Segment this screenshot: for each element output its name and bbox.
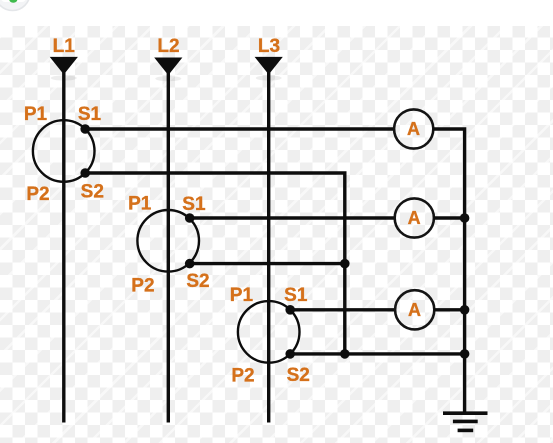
junction S2 drop / CT2 tap bbox=[340, 259, 350, 269]
wire L2 vertical bbox=[167, 71, 170, 423]
svg-text:L3: L3 bbox=[258, 36, 280, 57]
svg-text:S1: S1 bbox=[182, 194, 206, 215]
svg-text:A: A bbox=[408, 300, 421, 320]
arrow terminal L1 bbox=[50, 57, 78, 81]
junction CT3 S2 bbox=[285, 349, 295, 359]
svg-text:S2: S2 bbox=[81, 182, 104, 203]
wire CT1 S1 to ammeter A1 bbox=[85, 127, 394, 130]
svg-text:P1: P1 bbox=[128, 193, 152, 214]
wire A1 to bus and bus vertical bbox=[433, 129, 464, 413]
svg-text:S2: S2 bbox=[186, 271, 209, 292]
svg-text:P1: P1 bbox=[24, 104, 48, 125]
wire A3 to bus bbox=[434, 308, 464, 311]
svg-text:P2: P2 bbox=[131, 276, 154, 297]
ammeter A2 bbox=[395, 198, 434, 237]
svg-text:P2: P2 bbox=[231, 366, 254, 387]
svg-text:S2: S2 bbox=[287, 365, 310, 386]
arrow terminal L2 bbox=[154, 58, 182, 82]
svg-text:P1: P1 bbox=[230, 285, 254, 306]
CT3 circle bbox=[238, 301, 300, 363]
svg-text:L1: L1 bbox=[53, 36, 76, 57]
partial UI button (top-left corner) bbox=[0, 0, 30, 11]
ground bbox=[443, 413, 488, 430]
wire L3 vertical bbox=[267, 70, 270, 423]
svg-text:L2: L2 bbox=[157, 36, 179, 57]
svg-text:S1: S1 bbox=[78, 104, 102, 125]
svg-text:A: A bbox=[407, 119, 420, 139]
wire L1 vertical bbox=[62, 70, 65, 423]
wire CT3 S2 to bus bbox=[290, 352, 464, 355]
junction CT2 S1 bbox=[185, 213, 195, 223]
wire CT1 S2 right and down bbox=[85, 173, 345, 354]
svg-text:P2: P2 bbox=[26, 184, 49, 205]
wire CT2 S2 right bbox=[190, 262, 345, 265]
junction bus row2 bbox=[460, 213, 470, 223]
CT1 circle bbox=[33, 120, 95, 182]
ammeter A1 bbox=[394, 109, 433, 148]
junction S2 drop bottom bbox=[340, 349, 350, 359]
wire CT2 S1 to ammeter A2 bbox=[190, 216, 395, 219]
junction bus row3 bbox=[460, 305, 470, 315]
CT2 circle bbox=[137, 210, 199, 272]
junction CT1 S1 bbox=[80, 124, 90, 134]
junction CT3 S1 bbox=[285, 305, 295, 315]
wire CT3 S1 to ammeter A3 bbox=[290, 308, 395, 311]
arrow terminal L3 bbox=[255, 57, 283, 81]
wire A2 to bus bbox=[434, 216, 465, 219]
ammeter A3 bbox=[395, 290, 434, 329]
junction bus S2 return bbox=[460, 349, 470, 359]
svg-text:S1: S1 bbox=[284, 285, 308, 306]
junction CT1 S2 bbox=[80, 168, 90, 178]
svg-text:A: A bbox=[408, 208, 421, 228]
junction CT2 S2 bbox=[185, 259, 195, 269]
